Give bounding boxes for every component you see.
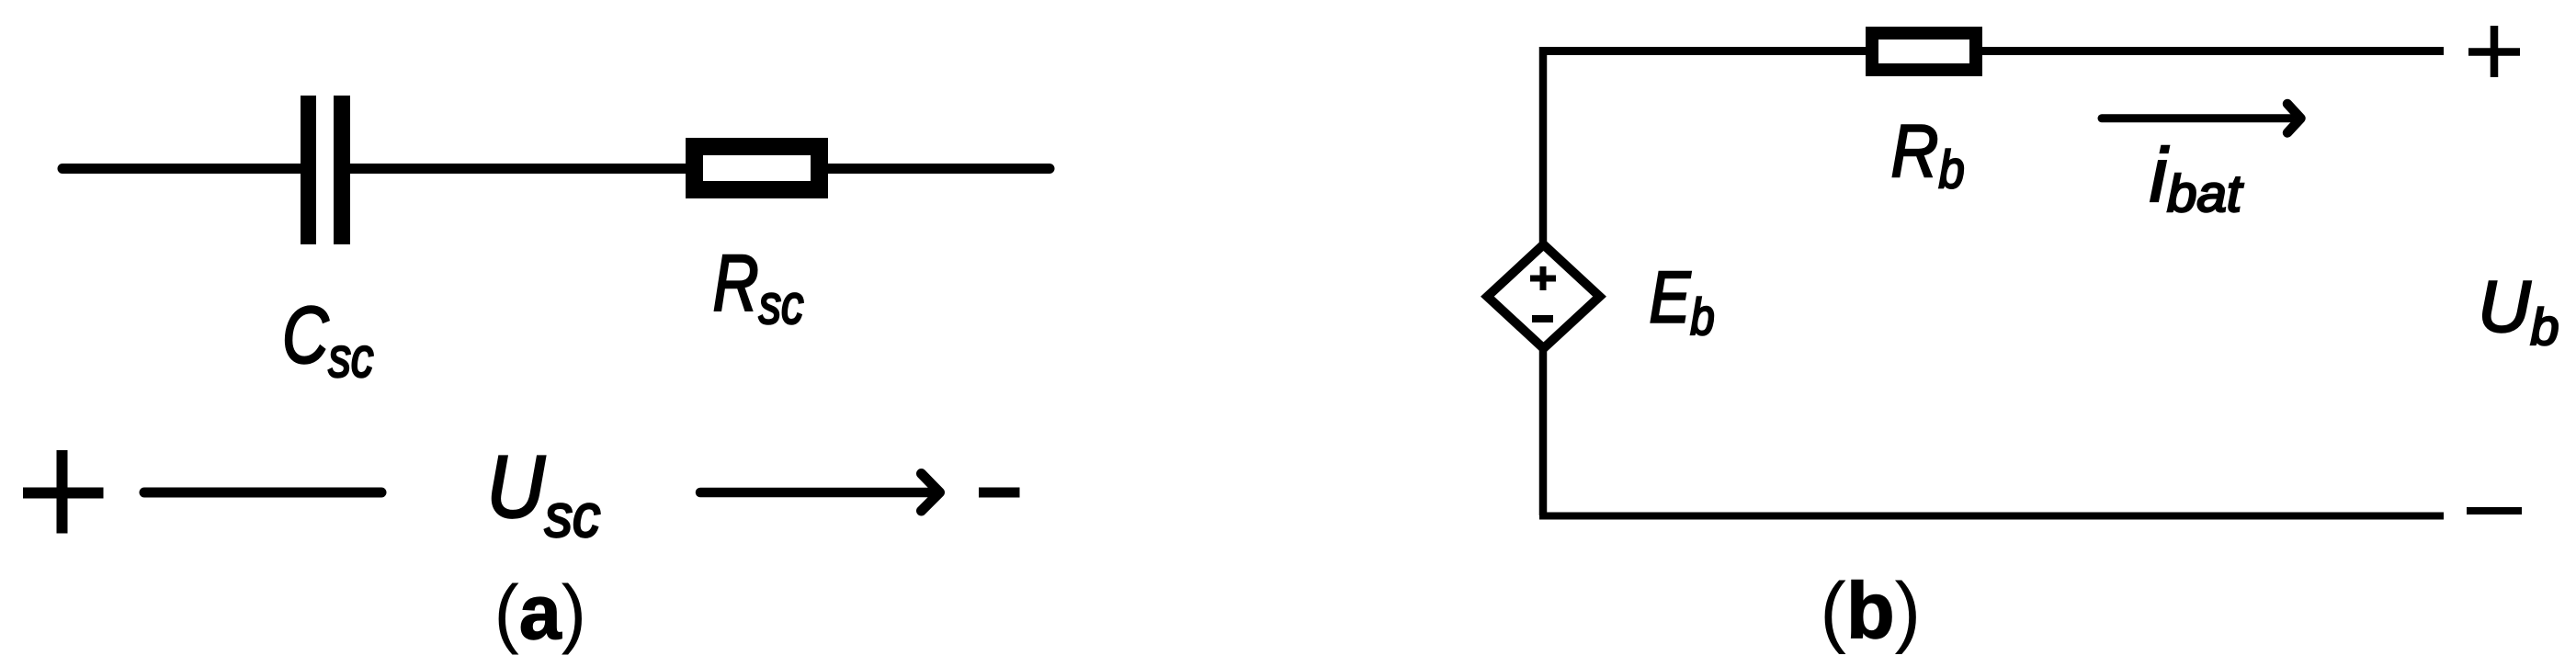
wire top of loop b	[1539, 47, 2444, 55]
source Eb diamond	[1487, 244, 1599, 348]
minus sign of Usc	[979, 488, 1020, 498]
wire left vertical of loop b	[1539, 47, 1548, 515]
capacitor Csc left plate	[301, 96, 316, 244]
plus terminal of Ub	[2468, 26, 2520, 77]
minus sign inside Eb	[1532, 315, 1553, 322]
wire bottom of loop b	[1539, 513, 2444, 520]
plus sign of Usc	[23, 450, 104, 534]
Usc reference line	[144, 488, 381, 498]
capacitor Csc right plate	[334, 96, 350, 244]
minus terminal of Ub	[2467, 507, 2522, 514]
wire left lead of Csc	[62, 164, 303, 174]
wire between Csc and Rsc	[350, 164, 689, 174]
resistor Rb	[1872, 33, 1976, 70]
arrow of Usc	[700, 474, 940, 512]
resistor Rsc	[695, 147, 820, 190]
plus sign inside Eb	[1530, 266, 1556, 290]
wire right lead of Rsc	[825, 164, 1050, 174]
svg-text:(b): (b)	[1820, 567, 1921, 655]
svg-text:(a): (a)	[494, 569, 586, 655]
arrow of ibat	[2102, 104, 2301, 133]
